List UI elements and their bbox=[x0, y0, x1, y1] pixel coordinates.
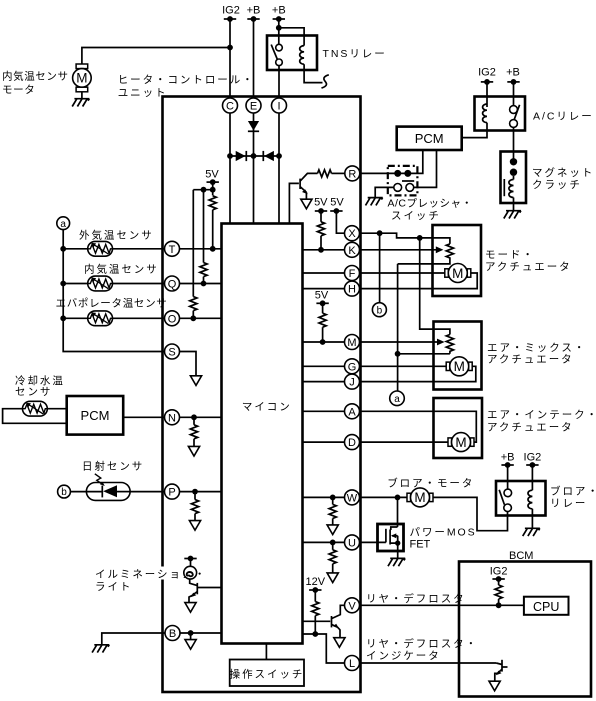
wire sun sensor to P bbox=[130, 491, 164, 493]
terminal L bbox=[345, 656, 360, 671]
svg-text:リヤ・デフロスタ・: リヤ・デフロスタ・ bbox=[366, 637, 478, 650]
wire H row bbox=[303, 288, 345, 290]
label 5V (M pull-up) bbox=[315, 290, 329, 302]
svg-text:A/Cプレッシャ・: A/Cプレッシャ・ bbox=[388, 198, 473, 210]
power tap 5V M pull-up bbox=[316, 300, 328, 306]
wire X node down to air-mix pot bbox=[420, 238, 450, 335]
wire D to intake motor bbox=[360, 441, 449, 443]
label coolant temp sensor bbox=[15, 374, 65, 398]
wire IG2 to blower relay coil bbox=[531, 465, 533, 490]
svg-text:アクチュエータ: アクチュエータ bbox=[487, 354, 574, 366]
svg-text:W: W bbox=[347, 492, 358, 504]
BCM box bbox=[459, 562, 591, 697]
heater control unit box bbox=[163, 97, 361, 693]
svg-text:Q: Q bbox=[168, 279, 177, 291]
wire mode pot low / air-mix pot low to node a bbox=[395, 264, 450, 391]
terminal N bbox=[165, 410, 180, 425]
air-intake actuator box bbox=[434, 398, 483, 458]
wire E column into microcomputer bbox=[253, 113, 255, 224]
svg-text:I: I bbox=[277, 101, 280, 113]
node K pull-up junction bbox=[318, 247, 324, 253]
relay blower box bbox=[496, 481, 546, 516]
ground blower relay bbox=[523, 528, 540, 536]
label A/C relay bbox=[533, 111, 594, 123]
svg-text:+B: +B bbox=[501, 452, 515, 464]
wire B to chassis ground bbox=[102, 633, 165, 645]
svg-text:5V: 5V bbox=[205, 169, 219, 181]
motor air-intake actuator bbox=[448, 433, 474, 452]
photodiode sun sensor bbox=[86, 474, 130, 501]
svg-text:リレー: リレー bbox=[550, 498, 587, 510]
ground arrow U bbox=[327, 573, 338, 583]
wire tap to lamp bbox=[190, 559, 192, 567]
power tap IG2 blower bbox=[526, 462, 538, 468]
svg-text:モード・: モード・ bbox=[485, 249, 535, 261]
svg-text:モータ: モータ bbox=[2, 84, 35, 96]
power tap +B A/C relay bbox=[507, 79, 519, 85]
svg-text:P: P bbox=[168, 487, 175, 499]
svg-text:アクチュエータ: アクチュエータ bbox=[485, 261, 572, 273]
power tap IG2 A/C relay bbox=[481, 79, 493, 85]
svg-text:A: A bbox=[348, 406, 356, 418]
svg-text:ブロア・: ブロア・ bbox=[550, 485, 596, 498]
label magnet clutch bbox=[532, 166, 596, 191]
svg-text:M: M bbox=[347, 337, 356, 349]
motor blower bbox=[407, 488, 433, 507]
node 5V row at 212.7 bbox=[210, 187, 216, 193]
node P pulldown bbox=[192, 489, 198, 495]
wire motor to ground bbox=[81, 92, 83, 99]
node U pulldown bbox=[330, 540, 336, 546]
wire pressure switch to ground bbox=[375, 187, 394, 197]
label A/C pressure switch bbox=[388, 198, 473, 223]
node BCM pull-up / V line bbox=[496, 602, 502, 608]
svg-text:FET: FET bbox=[410, 539, 431, 551]
svg-text:a: a bbox=[394, 394, 400, 405]
A/C pressure switch contacts bbox=[394, 170, 414, 191]
mode actuator box bbox=[433, 225, 482, 296]
label air-intake actuator bbox=[487, 409, 596, 434]
node bus/Q row bbox=[60, 281, 66, 287]
wire +B to terminal E bbox=[253, 19, 255, 98]
svg-text:スイッチ: スイッチ bbox=[391, 210, 441, 222]
terminal W bbox=[345, 490, 360, 505]
terminal R bbox=[345, 166, 360, 181]
svg-text:ブロア・モータ: ブロア・モータ bbox=[387, 477, 474, 490]
air-mix actuator box bbox=[434, 322, 482, 390]
wire A to intake motor bbox=[360, 411, 477, 442]
wire sensor return bus bbox=[63, 230, 164, 352]
svg-text:PCM: PCM bbox=[81, 408, 110, 423]
svg-text:E: E bbox=[250, 101, 257, 113]
wire W row bbox=[303, 496, 345, 498]
A/C relay switch contacts bbox=[510, 105, 520, 128]
label 5V pull-up supply bbox=[205, 169, 219, 181]
terminal H bbox=[345, 281, 360, 296]
node 5V row at 203.5 bbox=[201, 187, 207, 193]
terminal G bbox=[345, 359, 360, 374]
net +B blower relay bbox=[501, 452, 515, 464]
resistor pull-up T bbox=[209, 196, 216, 252]
wire C column into microcomputer bbox=[229, 113, 231, 224]
resistor U pulldown bbox=[329, 542, 336, 573]
node MOSFET drain junction bbox=[395, 495, 401, 501]
wire S to internal ground bbox=[180, 352, 197, 376]
svg-text:H: H bbox=[348, 284, 356, 296]
terminal E bbox=[246, 98, 261, 113]
node b (right) bbox=[372, 303, 386, 317]
wire IG2 to A/C relay coil bbox=[486, 82, 488, 107]
svg-text:内気温センサ・: 内気温センサ・ bbox=[2, 70, 80, 83]
resistor P pulldown bbox=[191, 492, 198, 521]
wire b to sun sensor bbox=[70, 491, 86, 493]
svg-text:ユニット: ユニット bbox=[118, 87, 168, 99]
wire X node down to b bbox=[379, 233, 381, 303]
svg-text:X: X bbox=[348, 228, 356, 240]
terminal K bbox=[345, 242, 360, 257]
svg-text:マイコン: マイコン bbox=[242, 401, 292, 413]
svg-text:エバポレータ温センサ: エバポレータ温センサ bbox=[56, 297, 168, 309]
wire I column into microcomputer bbox=[278, 113, 280, 224]
terminal O bbox=[165, 311, 180, 326]
label illumination light bbox=[93, 567, 207, 594]
transistor BCM indicator driver bbox=[495, 660, 508, 681]
wire L path from microcomputer bbox=[303, 634, 345, 663]
label BCM bbox=[509, 550, 533, 562]
magnet clutch contacts bbox=[510, 158, 517, 176]
wire L to BCM transistor bbox=[360, 662, 497, 664]
relay TNS box bbox=[267, 36, 317, 71]
wire pressure switch to PCM bbox=[414, 150, 437, 187]
wire B row bbox=[180, 632, 222, 634]
svg-text:K: K bbox=[348, 245, 356, 257]
label 5V (K pull-up) bbox=[314, 197, 328, 209]
wire Q row bbox=[63, 283, 221, 285]
net IG2 blower relay bbox=[524, 452, 542, 464]
resistor pull-up Q bbox=[200, 190, 207, 287]
label sun sensor bbox=[82, 460, 144, 473]
net +B (second) bbox=[272, 5, 286, 17]
wire T row bbox=[63, 248, 221, 250]
wire D row bbox=[303, 441, 345, 443]
ground arrow R transistor bbox=[301, 199, 312, 209]
resistor N pulldown bbox=[190, 417, 197, 446]
TNS relay coil bbox=[300, 46, 304, 65]
power tap 12V bbox=[309, 587, 321, 593]
wire R to A/C pressure switch and PCM bbox=[360, 150, 423, 173]
svg-text:b: b bbox=[377, 305, 383, 316]
wire drain junction to MOSFET bbox=[397, 497, 399, 527]
ground magnet clutch bbox=[504, 211, 521, 219]
node C on diode row bbox=[227, 153, 233, 159]
wire N row bbox=[180, 416, 222, 418]
svg-text:R: R bbox=[348, 168, 356, 180]
svg-text:エア・ミックス・: エア・ミックス・ bbox=[487, 342, 586, 354]
wire M row bbox=[303, 341, 345, 343]
label 12V bbox=[306, 576, 326, 588]
node I on diode row bbox=[276, 153, 282, 159]
svg-text:日射センサ: 日射センサ bbox=[82, 460, 144, 473]
label mode actuator bbox=[485, 249, 572, 273]
svg-text:アクチュエータ: アクチュエータ bbox=[487, 422, 574, 434]
terminal P bbox=[165, 484, 180, 499]
ground chassis B bbox=[92, 645, 109, 653]
resistor BCM pull-up bbox=[495, 579, 502, 605]
label evaporator temp sensor bbox=[56, 297, 168, 309]
label heater control unit bbox=[118, 74, 255, 99]
ground arrow illumination bbox=[185, 603, 196, 613]
A/C pressure switch dashed box bbox=[388, 166, 418, 196]
node M pull-up junction bbox=[320, 339, 326, 345]
node a (right) bbox=[390, 391, 405, 406]
wire 5V tap to distribution row bbox=[193, 182, 212, 195]
net IG2 (top) bbox=[222, 5, 240, 17]
terminal T bbox=[165, 241, 180, 256]
potentiometer air-mix bbox=[446, 335, 453, 354]
label rear defroster bbox=[366, 592, 466, 605]
svg-text:外気温センサ: 外気温センサ bbox=[79, 228, 154, 241]
wire K row bbox=[303, 249, 345, 251]
svg-text:IG2: IG2 bbox=[490, 566, 508, 578]
svg-text:G: G bbox=[348, 361, 357, 373]
svg-text:5V: 5V bbox=[314, 197, 328, 209]
node W pulldown bbox=[330, 495, 336, 501]
svg-text:インジケータ: インジケータ bbox=[366, 650, 441, 662]
power MOS FET box bbox=[378, 524, 404, 551]
magnet clutch box bbox=[501, 152, 527, 204]
terminal F bbox=[345, 266, 360, 281]
resistor V pull-up bbox=[312, 590, 319, 634]
wire microcomputer to operation switch bbox=[265, 644, 267, 660]
svg-text:パワーMOS: パワーMOS bbox=[410, 527, 477, 539]
A/C relay coil bbox=[483, 104, 487, 123]
terminal J bbox=[345, 374, 360, 389]
wire TNS coil out with break squiggle bbox=[304, 64, 329, 88]
svg-text:ヒータ・コントロール・: ヒータ・コントロール・ bbox=[118, 74, 255, 86]
power tap 5V X supply bbox=[330, 208, 342, 214]
svg-text:J: J bbox=[349, 377, 355, 389]
wire M wiper to air-mix pot bbox=[360, 339, 445, 346]
power tap IG2 bbox=[224, 16, 236, 22]
power tap 5V pull-ups bbox=[207, 179, 219, 185]
svg-text:内気温センサ: 内気温センサ bbox=[84, 263, 159, 276]
ground arrow N bbox=[188, 446, 199, 456]
microcomputer box bbox=[222, 224, 303, 644]
wire K wiper to mode pot bbox=[360, 246, 444, 253]
svg-text:+B: +B bbox=[506, 67, 520, 79]
node junction IG2 / room-sensor motor bbox=[227, 45, 233, 51]
wire O row bbox=[63, 317, 221, 319]
node junction +B / TNS coil bbox=[276, 25, 282, 31]
label TNS relay bbox=[323, 48, 387, 60]
node bus/O row bbox=[60, 315, 66, 321]
net IG2 A/C relay bbox=[478, 67, 496, 79]
terminal I bbox=[272, 98, 287, 113]
net IG2 BCM bbox=[490, 566, 508, 578]
relay A/C box bbox=[475, 97, 526, 131]
transistor V driver (base from microcomputer) bbox=[303, 605, 345, 637]
potentiometer mode bbox=[398, 244, 454, 264]
svg-text:PCM: PCM bbox=[415, 131, 444, 146]
terminal V bbox=[345, 598, 360, 613]
wire A row bbox=[303, 410, 345, 412]
wire F row bbox=[303, 272, 345, 274]
resistor W pulldown bbox=[329, 497, 336, 525]
svg-text:クラッチ: クラッチ bbox=[532, 179, 582, 191]
wire H to mode motor bbox=[360, 273, 478, 289]
net +B A/C relay bbox=[506, 67, 520, 79]
ground below motor bbox=[72, 99, 89, 107]
node b (left) bbox=[58, 485, 71, 498]
svg-text:a: a bbox=[60, 219, 66, 230]
svg-text:B: B bbox=[169, 628, 176, 640]
resistor K pull-up bbox=[317, 211, 324, 250]
svg-text:5V: 5V bbox=[315, 290, 329, 302]
node 12V pull-up / L path bbox=[312, 631, 318, 637]
ground arrow B bbox=[185, 640, 196, 650]
node X / b branch bbox=[377, 230, 383, 236]
svg-text:L: L bbox=[349, 658, 355, 670]
label inside air temp sensor bbox=[84, 263, 159, 276]
node B pulldown bbox=[188, 630, 194, 636]
ground MOSFET bbox=[388, 558, 405, 566]
thermistor inside air temp bbox=[88, 276, 113, 291]
magnet clutch coil with core bbox=[504, 176, 513, 211]
svg-text:IG2: IG2 bbox=[478, 67, 496, 79]
wire junction to motor bbox=[82, 48, 230, 65]
power tap +B blower bbox=[501, 462, 513, 468]
svg-text:マグネット・: マグネット・ bbox=[532, 166, 596, 179]
svg-text:+B: +B bbox=[247, 5, 261, 17]
power tap illumination bbox=[184, 556, 196, 562]
svg-text:エア・インテーク・: エア・インテーク・ bbox=[487, 409, 596, 421]
ground arrow BCM transistor bbox=[489, 681, 500, 691]
transistor illumination (base right from microcomputer) bbox=[189, 579, 222, 603]
label air-mix actuator bbox=[487, 342, 586, 366]
svg-text:F: F bbox=[349, 268, 356, 280]
PCM box (right) bbox=[397, 127, 462, 150]
power tap IG2 BCM bbox=[492, 576, 504, 582]
svg-text:C: C bbox=[226, 101, 234, 113]
svg-text:TNSリレー: TNSリレー bbox=[323, 48, 387, 60]
node E on diode row bbox=[251, 153, 257, 159]
wire coolant sensor loop bbox=[3, 409, 67, 424]
MOSFET symbol bbox=[386, 527, 401, 558]
transistor R driver (base from microcomputer) bbox=[289, 173, 317, 223]
diode below E (pointing down) bbox=[248, 121, 259, 131]
motor room temperature sensor bbox=[73, 64, 92, 92]
thermistor evaporator temp bbox=[88, 311, 113, 326]
CPU box bbox=[524, 597, 569, 615]
svg-text:5V: 5V bbox=[330, 197, 344, 209]
terminal M bbox=[345, 335, 360, 350]
thermistor coolant temp bbox=[23, 401, 48, 416]
PCM box (left) bbox=[67, 396, 124, 435]
motor mode actuator bbox=[445, 264, 471, 283]
blower relay coil bbox=[528, 490, 532, 509]
svg-text:BCM: BCM bbox=[509, 550, 533, 562]
svg-text:リヤ・デフロスタ: リヤ・デフロスタ bbox=[366, 592, 466, 605]
net +B (first) bbox=[247, 5, 261, 17]
svg-text:b: b bbox=[61, 487, 67, 498]
wire TNS switch to terminal I bbox=[278, 66, 280, 98]
wire P row bbox=[180, 491, 222, 493]
terminal A bbox=[345, 404, 360, 419]
svg-text:M: M bbox=[76, 71, 87, 86]
blower relay switch contacts bbox=[499, 489, 511, 512]
wire junction to TNS coil bbox=[279, 28, 304, 46]
svg-text:IG2: IG2 bbox=[222, 5, 240, 17]
terminal U bbox=[345, 535, 360, 550]
ground arrow P bbox=[189, 521, 200, 531]
label power MOS FET bbox=[410, 527, 477, 551]
label blower motor bbox=[387, 477, 474, 490]
terminal S bbox=[165, 344, 180, 359]
svg-text:S: S bbox=[168, 347, 175, 359]
label outside air temp sensor bbox=[79, 228, 154, 241]
wire U to MOSFET gate bbox=[360, 541, 386, 543]
wire X row to mode pot top bbox=[360, 233, 450, 244]
wire PCM to terminal N bbox=[123, 416, 164, 418]
wire F to mode motor bbox=[360, 272, 445, 274]
wire blower relay coil to ground bbox=[531, 509, 533, 529]
ground arrow S bbox=[190, 376, 201, 386]
svg-text:O: O bbox=[168, 313, 177, 325]
ground arrow V transistor bbox=[334, 638, 345, 648]
node bus/T row bbox=[60, 246, 66, 252]
svg-text:U: U bbox=[348, 537, 356, 549]
ground arrow W bbox=[327, 525, 338, 535]
node a (sensor return bus) bbox=[57, 217, 70, 230]
svg-text:センサ: センサ bbox=[15, 386, 52, 398]
wire diode OR row bbox=[230, 155, 279, 157]
wire +B to TNS relay switch bbox=[278, 19, 280, 44]
wire IG2 to terminal C bbox=[229, 19, 231, 98]
operation switch box bbox=[230, 660, 305, 687]
label room temperature sensor motor bbox=[2, 70, 80, 97]
wire blower motor to relay switch bbox=[433, 497, 508, 530]
svg-text:D: D bbox=[348, 437, 356, 449]
svg-text:CPU: CPU bbox=[533, 600, 559, 614]
node X / air-mix branch bbox=[417, 235, 423, 241]
ground pressure switch bbox=[366, 198, 383, 206]
wire J to air-mix motor bbox=[360, 366, 476, 381]
wire V to CPU bbox=[360, 604, 524, 606]
diode I-to-E (pointing left) bbox=[263, 151, 274, 161]
svg-text:ライト: ライト bbox=[95, 581, 132, 593]
svg-text:A/Cリレー: A/Cリレー bbox=[533, 111, 594, 123]
resistor M pull-up bbox=[319, 303, 326, 342]
label rear defroster indicator bbox=[366, 637, 478, 662]
svg-text:T: T bbox=[169, 244, 176, 256]
lamp illumination bbox=[184, 566, 197, 579]
svg-text:N: N bbox=[168, 412, 176, 424]
label blower relay bbox=[550, 485, 596, 510]
svg-text:V: V bbox=[348, 600, 356, 612]
wire 5V tap to X row bbox=[336, 211, 344, 233]
svg-text:操作スイッチ: 操作スイッチ bbox=[230, 668, 305, 681]
wire PCM to A/C relay coil bbox=[462, 123, 487, 138]
wire node to ground arrow B bbox=[190, 633, 192, 640]
wire J row bbox=[303, 381, 345, 383]
terminal B bbox=[165, 626, 180, 641]
svg-text:IG2: IG2 bbox=[524, 452, 542, 464]
resistor R series bbox=[318, 170, 345, 177]
power tap 5V K pull-up bbox=[315, 208, 327, 214]
wire U row bbox=[303, 541, 345, 543]
terminal D bbox=[345, 435, 360, 450]
terminal X bbox=[345, 226, 360, 241]
